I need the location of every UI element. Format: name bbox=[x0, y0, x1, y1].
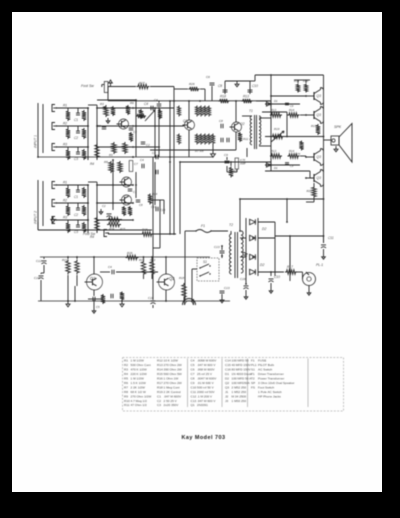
svg-text:R18: R18 bbox=[142, 228, 148, 232]
svg-text:Q1: Q1 bbox=[191, 403, 195, 407]
svg-text:C2: C2 bbox=[146, 143, 150, 147]
svg-text:Q3: Q3 bbox=[317, 176, 322, 180]
svg-text:C8: C8 bbox=[191, 377, 195, 381]
svg-text:F1: F1 bbox=[201, 224, 205, 228]
svg-text:INPUT 1: INPUT 1 bbox=[34, 135, 38, 148]
svg-text:C4: C4 bbox=[108, 265, 112, 269]
svg-text:C13: C13 bbox=[214, 245, 220, 249]
svg-text:.047 M 600 V: .047 M 600 V bbox=[197, 399, 216, 403]
svg-text:R20: R20 bbox=[307, 189, 313, 193]
svg-text:2N3391: 2N3391 bbox=[197, 403, 208, 407]
svg-text:R3: R3 bbox=[109, 153, 113, 157]
svg-text:2000 mf 50V: 2000 mf 50V bbox=[197, 390, 215, 394]
svg-text:47 Ohm 1/2: 47 Ohm 1/2 bbox=[131, 403, 147, 407]
svg-text:25 mf 25 V: 25 mf 25 V bbox=[197, 372, 213, 376]
svg-text:220 K 1/2W: 220 K 1/2W bbox=[131, 372, 147, 376]
svg-text:4.7K: 4.7K bbox=[240, 158, 246, 162]
svg-text:C1: C1 bbox=[157, 394, 161, 398]
svg-text:C10: C10 bbox=[274, 275, 280, 279]
svg-text:C6: C6 bbox=[152, 151, 156, 155]
svg-text:C13: C13 bbox=[191, 399, 197, 403]
svg-text:R18: R18 bbox=[157, 385, 163, 389]
svg-text:Driver Transformer: Driver Transformer bbox=[258, 372, 284, 376]
svg-text:C2: C2 bbox=[102, 204, 106, 208]
svg-text:R1: R1 bbox=[124, 359, 128, 363]
svg-text:D1: D1 bbox=[274, 99, 278, 103]
svg-text:1 Meg Cont: 1 Meg Cont bbox=[164, 385, 180, 389]
svg-text:C3: C3 bbox=[74, 157, 78, 161]
svg-text:Q3: Q3 bbox=[317, 155, 322, 159]
svg-text:J2: J2 bbox=[225, 394, 229, 398]
svg-text:C2: C2 bbox=[157, 399, 161, 403]
svg-text:C6: C6 bbox=[191, 368, 195, 372]
svg-text:390 Ohm 2W: 390 Ohm 2W bbox=[164, 368, 182, 372]
svg-text:Q2: Q2 bbox=[225, 381, 229, 385]
svg-text:C8: C8 bbox=[219, 119, 223, 123]
svg-text:C5: C5 bbox=[191, 363, 195, 367]
svg-text:C2: C2 bbox=[74, 213, 78, 217]
svg-text:560 Ohm 5W: 560 Ohm 5W bbox=[164, 372, 182, 376]
svg-text:.01 M 600 V: .01 M 600 V bbox=[197, 381, 215, 385]
svg-text:40 MFD 150V: 40 MFD 150V bbox=[232, 363, 252, 367]
svg-text:R24: R24 bbox=[109, 227, 115, 231]
svg-text:Foot Sw: Foot Sw bbox=[81, 84, 94, 88]
svg-text:J3: J3 bbox=[225, 399, 229, 403]
svg-text:R8: R8 bbox=[104, 160, 108, 164]
svg-text:R5: R5 bbox=[124, 377, 128, 381]
svg-text:M 34 2500: M 34 2500 bbox=[232, 394, 247, 398]
svg-text:D2: D2 bbox=[225, 377, 229, 381]
svg-text:PL1: PL1 bbox=[251, 363, 257, 367]
svg-text:80 MFD 150V: 80 MFD 150V bbox=[232, 368, 252, 372]
svg-text:.0047 M 600V: .0047 M 600V bbox=[197, 377, 217, 381]
svg-text:Q2: Q2 bbox=[240, 122, 245, 126]
svg-text:C16: C16 bbox=[225, 368, 231, 372]
svg-text:R3: R3 bbox=[63, 143, 67, 147]
svg-text:C8: C8 bbox=[290, 164, 294, 168]
svg-text:R14: R14 bbox=[157, 368, 163, 372]
svg-text:R6: R6 bbox=[124, 381, 128, 385]
svg-text:C14: C14 bbox=[225, 359, 231, 363]
svg-text:C1: C1 bbox=[74, 118, 78, 122]
svg-text:C12: C12 bbox=[36, 259, 42, 263]
svg-text:C10: C10 bbox=[252, 84, 258, 88]
svg-text:270 Ohm 1/2W: 270 Ohm 1/2W bbox=[131, 394, 152, 398]
svg-text:2 2K 1/2W: 2 2K 1/2W bbox=[131, 385, 146, 389]
svg-text:R13: R13 bbox=[243, 95, 249, 99]
svg-text:FS: FS bbox=[251, 385, 255, 389]
svg-text:INPUT 2: INPUT 2 bbox=[34, 211, 38, 224]
svg-text:C2: C2 bbox=[74, 136, 78, 140]
svg-text:Q3: Q3 bbox=[317, 113, 322, 117]
svg-text:AC Switch: AC Switch bbox=[258, 368, 273, 372]
svg-text:2 M52 250: 2 M52 250 bbox=[232, 385, 247, 389]
svg-text:SPK: SPK bbox=[334, 125, 342, 129]
svg-text:10 K 1/2W: 10 K 1/2W bbox=[164, 359, 179, 363]
svg-text:R26: R26 bbox=[127, 251, 133, 255]
svg-text:R19: R19 bbox=[274, 127, 280, 131]
svg-text:R14: R14 bbox=[289, 108, 295, 112]
svg-text:T2: T2 bbox=[229, 223, 233, 227]
svg-text:1 M52 250: 1 M52 250 bbox=[232, 390, 247, 394]
svg-text:1 Ohm 1W: 1 Ohm 1W bbox=[164, 377, 179, 381]
svg-text:4.7 Meg 1/2: 4.7 Meg 1/2 bbox=[131, 399, 148, 403]
svg-text:C5: C5 bbox=[96, 305, 100, 309]
svg-text:R13: R13 bbox=[271, 149, 277, 153]
svg-text:C9: C9 bbox=[191, 381, 195, 385]
svg-text:R12: R12 bbox=[157, 359, 163, 363]
svg-text:C4: C4 bbox=[140, 158, 144, 162]
svg-text:2 2K Control: 2 2K Control bbox=[164, 390, 182, 394]
svg-text:R2: R2 bbox=[63, 199, 67, 203]
svg-text:C5: C5 bbox=[133, 130, 137, 134]
svg-text:R11: R11 bbox=[243, 137, 249, 141]
svg-text:D1: D1 bbox=[225, 372, 229, 376]
svg-text:C15: C15 bbox=[160, 208, 166, 212]
svg-text:PL-1: PL-1 bbox=[316, 263, 323, 267]
svg-text:Q2: Q2 bbox=[90, 276, 96, 281]
svg-text:C4: C4 bbox=[144, 102, 148, 106]
svg-text:C9: C9 bbox=[224, 153, 228, 157]
svg-text:100 MFD 50 A: 100 MFD 50 A bbox=[232, 377, 253, 381]
svg-text:.0068 M 600V: .0068 M 600V bbox=[197, 359, 217, 363]
svg-text:R2: R2 bbox=[63, 122, 67, 126]
svg-text:R9: R9 bbox=[124, 394, 128, 398]
svg-text:R21: R21 bbox=[62, 258, 68, 262]
svg-text:2 50 25 V: 2 50 25 V bbox=[164, 399, 178, 403]
svg-text:R25: R25 bbox=[120, 227, 126, 231]
svg-text:T2: T2 bbox=[251, 377, 255, 381]
svg-text:Power Transformer: Power Transformer bbox=[258, 377, 284, 381]
svg-text:C3: C3 bbox=[74, 230, 78, 234]
svg-text:R15: R15 bbox=[157, 372, 163, 376]
svg-text:2x20 350V: 2x20 350V bbox=[164, 403, 180, 407]
svg-text:470 K 1/2W: 470 K 1/2W bbox=[131, 368, 147, 372]
svg-text:Q1: Q1 bbox=[183, 119, 188, 123]
svg-text:270 Ohm 2W: 270 Ohm 2W bbox=[164, 363, 182, 367]
svg-text:C6: C6 bbox=[206, 75, 210, 79]
svg-text:C11: C11 bbox=[328, 236, 334, 240]
svg-text:68 K 1/2 W: 68 K 1/2 W bbox=[131, 390, 146, 394]
svg-text:R2: R2 bbox=[124, 363, 128, 367]
svg-text:SP: SP bbox=[251, 381, 255, 385]
svg-text:R1: R1 bbox=[63, 181, 67, 185]
svg-text:C8: C8 bbox=[139, 203, 143, 207]
svg-text:C7: C7 bbox=[134, 162, 138, 166]
svg-text:.068 M 600V: .068 M 600V bbox=[197, 368, 215, 372]
svg-text:R19: R19 bbox=[157, 390, 163, 394]
svg-text:100 MFD 50: 100 MFD 50 bbox=[232, 359, 249, 363]
svg-text:R15: R15 bbox=[311, 124, 317, 128]
svg-text:C13: C13 bbox=[224, 286, 230, 290]
svg-text:C8: C8 bbox=[218, 84, 222, 88]
svg-text:R4: R4 bbox=[90, 162, 94, 166]
svg-text:500 mf 50 V: 500 mf 50 V bbox=[197, 385, 215, 389]
svg-text:D2: D2 bbox=[260, 263, 264, 267]
svg-text:R2: R2 bbox=[233, 169, 237, 173]
svg-text:R16: R16 bbox=[157, 377, 163, 381]
svg-text:1 M 1/2W: 1 M 1/2W bbox=[131, 377, 144, 381]
svg-text:R8: R8 bbox=[124, 390, 128, 394]
svg-text:1 M 1/2W: 1 M 1/2W bbox=[131, 359, 144, 363]
svg-text:3 Ohm 10x6 Oval Speaker: 3 Ohm 10x6 Oval Speaker bbox=[258, 381, 294, 385]
svg-text:R14: R14 bbox=[289, 149, 295, 153]
svg-text:Foot Switch: Foot Switch bbox=[258, 385, 274, 389]
svg-text:C12: C12 bbox=[191, 394, 197, 398]
svg-text:C11: C11 bbox=[191, 390, 197, 394]
svg-text:270 Ohm 2W: 270 Ohm 2W bbox=[164, 381, 182, 385]
svg-text:R18: R18 bbox=[220, 95, 226, 99]
svg-text:R3: R3 bbox=[124, 368, 128, 372]
svg-text:Q3: Q3 bbox=[225, 385, 229, 389]
svg-text:Q2: Q2 bbox=[169, 276, 175, 281]
svg-text:C4: C4 bbox=[191, 359, 195, 363]
svg-text:HP Phone Jacks: HP Phone Jacks bbox=[258, 394, 281, 398]
svg-text:500 Ohm Cont: 500 Ohm Cont bbox=[131, 363, 151, 367]
svg-text:R11: R11 bbox=[124, 403, 130, 407]
svg-text:R26: R26 bbox=[189, 82, 195, 86]
svg-text:.1 M 200 V: .1 M 200 V bbox=[197, 394, 213, 398]
svg-text:R3: R3 bbox=[100, 102, 104, 106]
svg-text:F1: F1 bbox=[251, 359, 255, 363]
svg-text:FUSE: FUSE bbox=[258, 359, 266, 363]
svg-text:.047 M 600V: .047 M 600V bbox=[164, 394, 182, 398]
svg-text:R4: R4 bbox=[124, 372, 128, 376]
svg-text:C15: C15 bbox=[225, 363, 231, 367]
svg-text:R6: R6 bbox=[130, 101, 134, 105]
svg-text:R17: R17 bbox=[157, 381, 163, 385]
svg-text:Q3: Q3 bbox=[317, 94, 322, 98]
svg-text:C3: C3 bbox=[157, 403, 161, 407]
svg-text:C16: C16 bbox=[240, 277, 246, 281]
svg-text:T1: T1 bbox=[251, 372, 255, 376]
svg-text:1N 4003 Diode: 1N 4003 Diode bbox=[232, 372, 253, 376]
svg-text:C8: C8 bbox=[290, 104, 294, 108]
svg-text:1.5 K 1/2W: 1.5 K 1/2W bbox=[131, 381, 146, 385]
svg-text:C1: C1 bbox=[133, 190, 137, 194]
svg-text:R1: R1 bbox=[63, 104, 67, 108]
svg-text:PILOT Bulb: PILOT Bulb bbox=[258, 363, 274, 367]
svg-text:R3: R3 bbox=[63, 216, 67, 220]
svg-text:C15: C15 bbox=[151, 205, 157, 209]
svg-text:D2: D2 bbox=[262, 227, 266, 231]
svg-text:Kay Model 703: Kay Model 703 bbox=[182, 435, 226, 441]
svg-text:1 Pole AC Switch: 1 Pole AC Switch bbox=[258, 390, 282, 394]
svg-text:C10: C10 bbox=[191, 385, 197, 389]
svg-text:C14: C14 bbox=[34, 276, 40, 280]
svg-text:R7: R7 bbox=[124, 385, 128, 389]
svg-text:R13: R13 bbox=[271, 108, 277, 112]
svg-text:J1: J1 bbox=[225, 390, 229, 394]
svg-text:S1: S1 bbox=[203, 260, 207, 264]
svg-text:C4: C4 bbox=[154, 98, 158, 102]
svg-text:C1: C1 bbox=[74, 195, 78, 199]
svg-text:Foot Sw: Foot Sw bbox=[83, 232, 96, 236]
svg-text:R18: R18 bbox=[179, 276, 185, 280]
svg-text:T1: T1 bbox=[249, 109, 253, 113]
svg-text:R27: R27 bbox=[139, 81, 145, 85]
svg-text:R17: R17 bbox=[287, 265, 293, 269]
svg-text:1 M50 250: 1 M50 250 bbox=[232, 399, 247, 403]
svg-text:R13: R13 bbox=[157, 363, 163, 367]
svg-text:S1: S1 bbox=[251, 368, 255, 372]
svg-text:C7: C7 bbox=[191, 372, 195, 376]
svg-text:100 MFD50A: 100 MFD50A bbox=[232, 381, 251, 385]
svg-text:D1: D1 bbox=[274, 166, 278, 170]
svg-text:.047 M 600 V: .047 M 600 V bbox=[197, 363, 216, 367]
svg-text:R10: R10 bbox=[124, 399, 130, 403]
